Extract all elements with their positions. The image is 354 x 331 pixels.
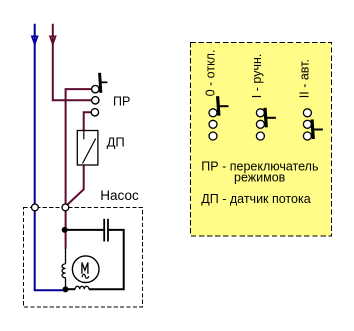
- svg-text:режимов: режимов: [234, 170, 286, 184]
- svg-text:II - авт.: II - авт.: [298, 59, 312, 98]
- svg-text:0 - откл.: 0 - откл.: [204, 50, 218, 97]
- svg-text:ДП: ДП: [107, 134, 125, 149]
- svg-text:I - ручн.: I - ручн.: [250, 54, 264, 99]
- svg-text:Насос: Насос: [100, 188, 139, 203]
- svg-text:ПР: ПР: [113, 95, 130, 109]
- svg-text:ДП - датчик потока: ДП - датчик потока: [201, 192, 310, 206]
